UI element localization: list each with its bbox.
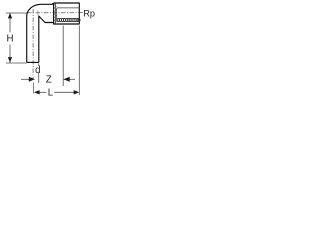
svg-text:L: L (48, 88, 54, 99)
svg-text:d: d (35, 65, 40, 76)
svg-text:Rp: Rp (83, 8, 95, 18)
svg-text:Z: Z (46, 75, 52, 86)
svg-text:H: H (7, 34, 14, 45)
